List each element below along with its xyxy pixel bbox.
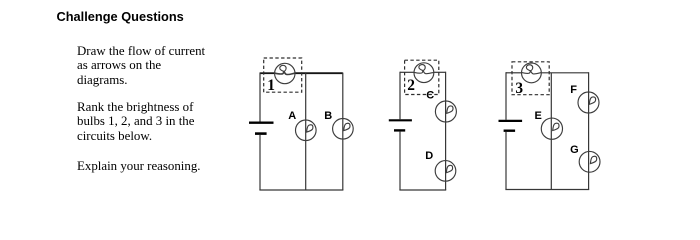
bulb E (lamp on middle branch) <box>541 118 562 139</box>
bulb B (lamp on right branch) <box>333 119 354 140</box>
title: Challenge Questions <box>57 9 184 24</box>
svg-text:3: 3 <box>515 80 523 97</box>
battery V3 short plate (-) <box>504 129 515 131</box>
wire: circuit 2 left lower (battery negative lead) <box>399 132 401 190</box>
svg-text:2: 2 <box>407 77 415 94</box>
bulb 2 (lamp inside dashed box, on top wire) <box>414 63 434 83</box>
battery V3 long plate (+) <box>499 120 523 122</box>
svg-text:E: E <box>535 110 542 122</box>
svg-text:G: G <box>570 144 579 156</box>
bulb D (lamp on right branch, lower) <box>435 161 456 182</box>
battery V1 long plate (+) <box>249 121 274 123</box>
wire: circuit 1 branch A vertical <box>305 73 307 190</box>
wire: circuit 3 right branch (through bulbs F and G) <box>588 72 590 189</box>
wire: circuit 2 left upper (battery positive lead) <box>399 72 401 120</box>
dashed highlight box around bulb 1 <box>264 58 302 92</box>
bulb A (lamp on middle branch) <box>296 120 317 141</box>
wire: circuit 1 bottom return <box>259 189 343 191</box>
svg-text:D: D <box>425 150 433 162</box>
wire: circuit 1 top node right segment <box>295 72 343 74</box>
wire: circuit 3 left lower (battery negative lead) <box>505 132 507 190</box>
bulb C (lamp on right branch, upper) <box>435 101 456 122</box>
bulb 3 (lamp inside dashed box, on top wire) <box>522 63 542 83</box>
wire: circuit 3 left upper (battery positive lead) <box>505 72 507 120</box>
wire: circuit 1 left lower (battery negative lead) <box>259 135 261 190</box>
wire: circuit 2 bottom return <box>399 189 446 191</box>
paragraph: Draw the flow of current <box>77 44 205 88</box>
wire: circuit 3 top node, gap at bulb 3 <box>506 72 522 74</box>
wire: circuit 3 middle branch (through bulb E) <box>550 73 552 190</box>
svg-text:A: A <box>288 110 296 122</box>
paragraph: Explain your reasoning <box>77 159 201 174</box>
bulb 1 (lamp inside dashed box, on top wire) <box>275 63 295 83</box>
wire: circuit 3 bottom return <box>505 189 589 191</box>
svg-text:B: B <box>324 110 332 122</box>
svg-text:C: C <box>426 90 434 102</box>
battery V2 short plate (-) <box>394 129 405 131</box>
svg-text:1: 1 <box>267 77 275 94</box>
wire: circuit 2 top node, gap at bulb 2 <box>400 71 414 73</box>
wire: circuit 3 top node right segment <box>541 72 588 74</box>
wire: circuit 2 right vertical (through bulbs C and D) <box>445 72 447 190</box>
dashed highlight box around bulb 3 <box>512 62 549 95</box>
wire: circuit 1 top node (battery + to branches), gap at bulb 1 <box>260 72 275 74</box>
battery V2 long plate (+) <box>389 119 412 121</box>
wire: circuit 1 left upper (battery positive lead) <box>259 73 261 122</box>
battery V1 short plate (-) <box>255 132 267 135</box>
bulb F (lamp on right branch, upper) <box>578 92 599 113</box>
svg-text:F: F <box>570 84 577 96</box>
wire: circuit 2 top node right segment <box>434 71 446 73</box>
dashed highlight box around bulb 2 <box>405 60 439 94</box>
wire: circuit 1 branch B vertical <box>342 73 344 190</box>
bulb G (lamp on right branch, lower) <box>579 151 600 172</box>
paragraph: Rank the brightness <box>77 100 194 144</box>
